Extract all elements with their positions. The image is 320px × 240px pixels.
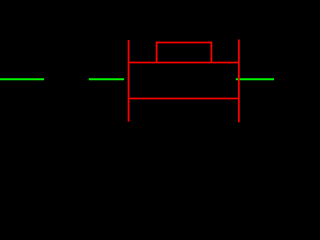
push-button switch S1 actuator (small box on top) <box>157 43 212 63</box>
push-button switch S1 body bottom edge <box>129 98 239 100</box>
wire W2 (middle green wire segment) <box>89 78 124 80</box>
wire W3 (right green wire segment) <box>236 78 274 80</box>
push-button switch S1 left pin <box>128 40 130 122</box>
wire W1 (left green wire segment) <box>0 78 44 80</box>
push-button switch S1 right pin <box>238 40 240 123</box>
push-button switch S1 body top edge <box>129 62 239 64</box>
